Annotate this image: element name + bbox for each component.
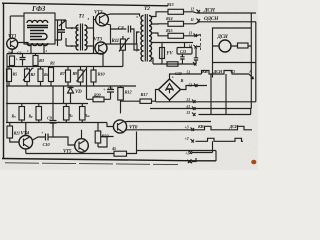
resistor R1 [49, 68, 54, 82]
transistor VT2 [96, 13, 109, 26]
diode VD [68, 86, 74, 104]
transformer T2 right winding [149, 16, 152, 62]
svg-text:В: В [180, 78, 184, 83]
svg-text:R4: R4 [44, 72, 49, 77]
wire rail 3 [6, 122, 107, 124]
wire row B [7, 66, 123, 68]
resistor Riz [80, 107, 86, 121]
svg-text:А: А [248, 69, 252, 74]
capacitor C1 [20, 54, 26, 66]
terminal 51b [194, 84, 198, 88]
svg-text:R1: R1 [50, 61, 55, 66]
wire T2 bottom tap [152, 58, 154, 64]
wire cluster left of T1 [55, 20, 79, 46]
wire box top-left [10, 15, 24, 17]
svg-text:VT5: VT5 [63, 150, 72, 155]
capacitor C4 [111, 26, 140, 51]
resistor Rr [36, 107, 42, 121]
wire rail 2 [6, 103, 88, 105]
wire left bus down [6, 54, 8, 123]
resistor R9 variable [78, 70, 83, 82]
wire VT6 collector right [125, 121, 212, 124]
lamp DSN box [213, 28, 256, 63]
svg-text:R15: R15 [166, 28, 172, 33]
transformer T1 left winding [76, 25, 79, 50]
switch row 2 wire [196, 126, 253, 130]
svg-text:51: 51 [187, 98, 191, 102]
resistor R14 [168, 21, 184, 26]
svg-text:ОДСН: ОДСН [204, 16, 219, 22]
wire 45 to rail [127, 132, 217, 154]
orange spot [251, 160, 256, 165]
wire C10 to VT5 [53, 124, 75, 146]
wire R15 to terminal 13 [184, 35, 201, 36]
resistor R22 [95, 131, 101, 143]
wire row 64 [153, 62, 197, 66]
resistor R17 [140, 99, 152, 103]
svg-text:3: 3 [135, 15, 138, 19]
wire VT1 emitter down [11, 49, 13, 53]
wire right drop [215, 151, 217, 162]
wire VT3 collector [105, 44, 140, 50]
svg-text:14: 14 [189, 45, 193, 49]
bridge rectifier [159, 79, 181, 100]
svg-text:VD: VD [75, 90, 82, 95]
resistor R4 [38, 69, 43, 82]
svg-text:R10: R10 [98, 72, 106, 77]
wire T2 tap to terminal 14 [152, 42, 194, 44]
resistor R16 [167, 62, 178, 66]
svg-text:ДСН: ДСН [213, 69, 223, 74]
resistor 45 [114, 151, 127, 156]
svg-text:R14: R14 [166, 16, 172, 21]
resistor Rp [19, 107, 25, 121]
wire VT6 base [107, 123, 113, 127]
wire bridge bottom out [156, 22, 256, 102]
resistor lamp [238, 43, 249, 48]
transformer GF3 core [27, 26, 48, 28]
svg-text:FV: FV [167, 52, 174, 57]
svg-text:12: 12 [191, 8, 195, 12]
svg-text:С1: С1 [231, 69, 236, 74]
transistor VT3 [95, 42, 107, 54]
wire VT3 emitter [102, 54, 104, 67]
relay box C31 [177, 48, 192, 55]
wire row 153 [192, 141, 213, 152]
svg-text:3: 3 [87, 17, 90, 21]
resistor R13 [168, 9, 184, 14]
resistor R12 [118, 88, 124, 101]
wire VT2 collector to T2 [107, 14, 140, 17]
resistor R11 variable [120, 39, 125, 50]
wire R13 to terminal 12 [184, 12, 257, 13]
wire R20 row [87, 67, 111, 100]
wire mid rail [6, 85, 136, 87]
svg-text:R21: R21 [14, 131, 20, 136]
svg-text:+3: +3 [185, 124, 189, 129]
wire GF3 bottom pins [31, 44, 44, 54]
resistor R7 [66, 70, 71, 82]
wire box down left [53, 86, 64, 104]
GF3 screen box [24, 13, 55, 44]
wire bridge right out [181, 86, 208, 90]
svg-text:13: 13 [189, 32, 193, 36]
stubs row B to rail [9, 67, 94, 87]
wire row 110 [150, 108, 251, 110]
wire VT2 emitter down [107, 24, 111, 44]
switch row drops [211, 74, 226, 115]
svg-text:R20: R20 [94, 93, 101, 98]
wire row A [7, 53, 104, 55]
transistor VT5 [75, 139, 89, 153]
svg-text:ДСН: ДСН [217, 35, 229, 40]
wire left bus to VT1 [9, 16, 11, 39]
capacitor C31b [194, 49, 198, 65]
terminal 61 [192, 107, 196, 111]
resistor R21 [7, 126, 13, 138]
transformer T1 right winding [85, 25, 88, 50]
svg-text:R17: R17 [141, 92, 149, 97]
frame bottom [2, 159, 216, 161]
switch row 1 wire [170, 71, 250, 80]
svg-text:ДСН: ДСН [203, 7, 216, 13]
svg-text:R5: R5 [13, 72, 18, 77]
wire T2 sec tap1 to R13 [152, 12, 169, 17]
wire VT5 collector [81, 130, 83, 139]
wire R11 [122, 36, 124, 67]
svg-text:ГФЗ: ГФЗ [31, 5, 46, 13]
switch A arrow [249, 74, 254, 79]
wire bottom rail left [26, 153, 114, 155]
svg-text:R22: R22 [102, 134, 110, 139]
resistor Rd [64, 107, 70, 121]
svg-text:Т2: Т2 [144, 6, 150, 12]
resistor R5 [7, 69, 12, 82]
svg-text:+2: +2 [185, 136, 189, 141]
wire T2 sec tap2 to R14 [152, 23, 169, 25]
frame bottom second line [5, 163, 178, 165]
arrow symbol [59, 20, 65, 26]
svg-text:31: 31 [186, 111, 191, 115]
terminal 41 [192, 100, 196, 104]
transformer GF3 bottom winding [27, 43, 48, 46]
wire T1 to bases [87, 28, 94, 46]
switch row 3 wire [196, 138, 244, 141]
resistor R8 [10, 56, 15, 66]
svg-text:R13: R13 [167, 2, 173, 7]
wire R14 to terminal 11 [184, 22, 257, 24]
wire VT6 emitter right [125, 129, 196, 132]
frame left [3, 3, 5, 159]
svg-text:КВ: КВ [197, 124, 204, 129]
svg-text:С31: С31 [180, 49, 186, 54]
wire T2 center tap [137, 32, 140, 44]
transformer GF3 top winding [27, 20, 48, 23]
capacitor C31a [180, 54, 184, 64]
transistor VT4 [19, 135, 33, 149]
resistor R3 [33, 56, 38, 66]
terminal 31 [192, 113, 196, 117]
svg-text:С1: С1 [17, 51, 22, 56]
svg-text:R11: R11 [112, 39, 119, 44]
svg-text:52: 52 [189, 84, 193, 88]
wire row 116 [199, 109, 251, 115]
transformer GF3 middle winding bars [30, 31, 47, 40]
transformer T1 core [81, 24, 83, 51]
transformer T2 core [145, 14, 147, 62]
transistor VT6 [113, 120, 126, 133]
wire T2 sec tap3 to R15 [152, 33, 169, 36]
lamp DSN [219, 40, 231, 52]
transformer T2 left winding [141, 16, 144, 62]
wire base bus [94, 16, 96, 54]
svg-text:61: 61 [187, 105, 191, 109]
frame top [2, 3, 168, 6]
transistor VT1 [7, 38, 18, 49]
svg-text:Rп: Rп [12, 114, 16, 119]
svg-text:Т1: Т1 [79, 14, 85, 20]
dashed link [200, 34, 202, 52]
svg-text:11: 11 [191, 18, 194, 22]
capacitor C2 plates [58, 30, 65, 32]
svg-text:45: 45 [111, 146, 116, 151]
bridge diode symbol [166, 84, 173, 94]
wire VT4 collector [25, 123, 27, 136]
wire VT1 collector right [18, 43, 28, 45]
svg-text:R2: R2 [31, 72, 36, 77]
resistor R2 variable [25, 69, 30, 82]
resistor R15 [168, 33, 184, 38]
resistor R20 [93, 97, 104, 102]
fuse FV [160, 48, 165, 59]
svg-text:С10: С10 [43, 142, 51, 147]
resistor R10 [91, 70, 96, 82]
wire DSN bus down [250, 13, 252, 109]
terminal blob bottom [187, 160, 192, 164]
wire VT4 emitter [25, 149, 27, 154]
wire VT5 emitter [81, 152, 83, 153]
svg-text:R12: R12 [125, 90, 133, 95]
